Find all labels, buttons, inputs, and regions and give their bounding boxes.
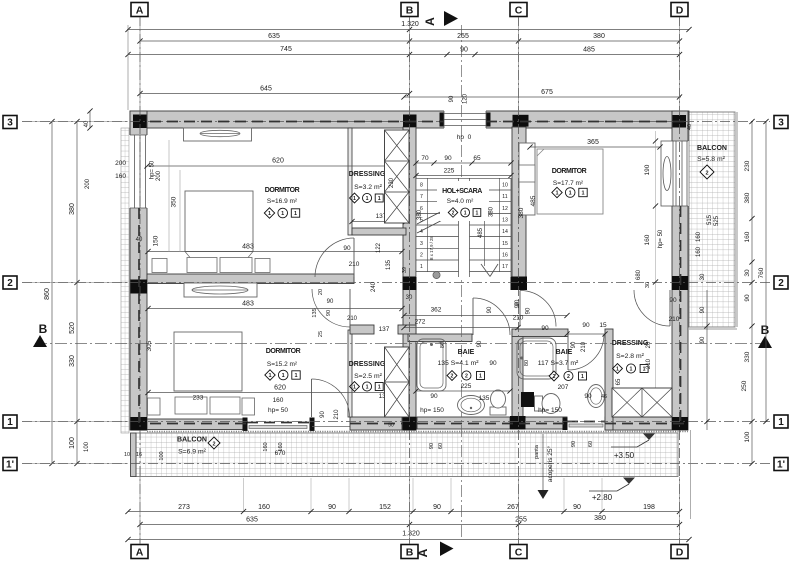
svg-text:30: 30 [406,295,413,301]
left exterior hatch strip [121,128,129,433]
svg-text:135: 135 [479,395,490,402]
svg-text:330: 330 [69,355,76,367]
dim 483 dormitor1 [148,251,402,253]
svg-text:90: 90 [430,393,438,400]
door baie2 [568,334,604,370]
svg-text:137: 137 [379,326,390,333]
axis 3 horizontal [22,121,444,123]
svg-text:1.320: 1.320 [401,21,419,28]
interior wall dorm1-dorm2 [147,274,354,284]
svg-text:250: 250 [741,380,748,391]
svg-text:380: 380 [417,209,423,220]
svg-text:1: 1 [581,374,584,380]
svg-text:365: 365 [587,139,599,146]
dim 365 dormitor3 [530,146,660,148]
svg-text:1: 1 [268,373,271,379]
dressing2 closet [385,347,410,417]
grid marker 2 right [774,276,788,289]
toilet baie2 [535,396,543,411]
svg-text:B: B [761,323,770,337]
svg-text:hp 0: hp 0 [457,134,472,141]
staircase [416,178,511,277]
svg-text:362: 362 [431,307,442,314]
svg-text:267: 267 [507,504,519,511]
svg-text:panta: panta [534,444,540,459]
grid marker C top [510,3,527,17]
dim 620 dormitor1 [147,165,402,167]
svg-text:305: 305 [146,340,153,351]
baie1 top wall [408,334,472,342]
svg-text:135: 135 [386,259,392,270]
dressing1 bottom wall [352,228,406,235]
svg-text:273: 273 [178,504,190,511]
bottom wall dorm2 segment [147,419,247,430]
svg-text:1: 1 [630,367,633,373]
bottom wall window baie2 [569,424,603,427]
dim lines dorm1 window [168,140,170,252]
svg-text:2: 2 [452,211,455,217]
svg-text:620: 620 [272,158,284,165]
grid marker 1p left [3,458,17,471]
svg-text:60: 60 [588,441,594,447]
svg-text:483: 483 [242,301,254,308]
svg-text:1: 1 [294,373,297,379]
tag balcon2 diamond [700,165,714,179]
svg-text:380: 380 [594,515,606,522]
tag baie2 [549,371,559,381]
svg-text:1.320: 1.320 [402,531,420,538]
svg-text:100: 100 [159,451,165,460]
svg-text:90: 90 [584,393,592,400]
right exterior wall [672,111,688,430]
axis 2 horizontal [22,282,770,284]
C axis wall upper [512,127,526,278]
svg-text:2: 2 [567,374,570,380]
dressing3 closet [612,388,672,417]
room label hol scara [437,181,489,205]
svg-text:198: 198 [643,504,655,511]
dressing3 left wall [605,329,613,430]
svg-text:40: 40 [136,237,143,243]
svg-text:760: 760 [758,267,765,278]
svg-text:90: 90 [582,322,590,329]
svg-text:210: 210 [334,409,340,420]
svg-text:A: A [416,548,430,557]
svg-text:90: 90 [489,360,497,367]
svg-text:1': 1' [777,460,785,471]
extension line B [409,17,411,113]
sink baie1 [458,396,485,415]
svg-text:S=6.9 m²: S=6.9 m² [178,449,207,456]
grid marker B top [401,3,418,17]
svg-text:150: 150 [153,235,160,246]
svg-text:1: 1 [569,191,572,197]
svg-text:152: 152 [379,504,391,511]
svg-text:135: 135 [312,308,318,317]
dim 70 90 65 stair [416,162,511,164]
grid marker A top [131,3,148,17]
svg-text:190: 190 [644,164,651,175]
svg-text:D: D [676,4,684,16]
svg-text:620: 620 [274,385,286,392]
svg-text:90: 90 [515,301,521,308]
svg-text:46: 46 [601,394,607,400]
dressing2 left wall [348,330,352,417]
svg-text:HOL+SCARA: HOL+SCARA [442,188,482,195]
svg-text:380: 380 [744,192,751,203]
dim 40 wall left [89,111,91,128]
axis 1 horizontal [22,421,770,423]
dressing1 left wall [348,128,352,235]
svg-text:15: 15 [502,241,508,247]
svg-text:S=4.0 m²: S=4.0 m² [447,198,474,205]
svg-text:330: 330 [744,351,751,362]
svg-text:100: 100 [744,431,751,442]
svg-text:10: 10 [124,452,130,458]
svg-text:DRESSING: DRESSING [349,361,386,368]
svg-text:80: 80 [440,342,446,348]
top exterior wall [130,111,689,128]
svg-text:S=2.8 m²: S=2.8 m² [616,353,645,360]
svg-text:160: 160 [696,246,702,257]
svg-text:90: 90 [669,297,677,304]
tag dressing2 [350,382,360,392]
svg-text:17: 17 [502,264,508,270]
svg-text:525: 525 [714,215,720,226]
svg-text:70: 70 [421,155,429,162]
svg-text:25: 25 [318,331,324,337]
svg-text:200: 200 [85,178,91,189]
svg-text:1: 1 [294,211,297,217]
door dormitor3 [634,290,670,326]
svg-text:745: 745 [280,46,292,53]
svg-text:90: 90 [328,504,336,511]
svg-text:90: 90 [449,95,455,102]
svg-text:90: 90 [343,245,351,252]
svg-text:A: A [136,546,144,558]
svg-text:645: 645 [260,86,272,93]
svg-text:100: 100 [69,437,76,449]
svg-text:483: 483 [242,244,254,251]
extension line A [139,17,141,110]
svg-text:120: 120 [463,93,469,104]
bed dormitor2 [174,332,242,391]
svg-text:30: 30 [645,282,651,288]
balcony right outer edge [736,112,738,327]
column C1 [510,416,526,430]
svg-text:2: 2 [553,374,556,380]
column B3 [403,115,417,128]
svg-text:B: B [406,546,414,558]
svg-text:225: 225 [461,383,472,390]
dim 620 dormitor2 [148,392,402,394]
section line B-B horizontal [35,343,762,345]
svg-text:D: D [676,546,684,558]
terrace left parapet [131,433,137,477]
dim 675 right [404,96,681,98]
column B1 [403,417,417,431]
svg-text:1: 1 [7,417,13,428]
svg-text:210: 210 [347,316,358,322]
grid marker B bottom [401,545,418,559]
svg-text:225: 225 [444,168,455,175]
svg-text:160: 160 [644,234,651,245]
svg-text:1: 1 [366,196,369,202]
svg-text:117 S=3.7 m²: 117 S=3.7 m² [538,360,579,367]
svg-text:100: 100 [84,441,90,452]
dim total 1320 top [127,29,689,31]
extension line terrace right [690,430,692,519]
svg-text:1: 1 [268,211,271,217]
svg-text:11: 11 [502,194,507,200]
svg-text:380: 380 [593,33,605,40]
svg-text:16: 16 [136,452,142,458]
svg-text:90: 90 [571,341,577,348]
svg-text:DORMITOR: DORMITOR [552,168,587,175]
svg-text:1: 1 [281,211,284,217]
C axis wall lower [512,330,523,418]
svg-text:39: 39 [402,267,408,273]
svg-text:1: 1 [366,385,369,391]
tag baie1 [447,371,457,381]
tag dormitor1 [264,208,274,218]
svg-text:12: 12 [502,206,508,212]
svg-text:14: 14 [502,229,508,235]
svg-text:255: 255 [457,33,469,40]
grid marker D bottom [671,545,688,559]
dim 760 right line [765,122,767,422]
axis C vertical [518,16,520,544]
dim 483 dormitor2 [148,308,402,310]
svg-text:1: 1 [581,191,584,197]
svg-text:90: 90 [573,504,581,511]
svg-text:1: 1 [378,196,381,202]
svg-text:hp= 50: hp= 50 [268,407,288,414]
column D3 [673,115,687,128]
svg-text:1: 1 [353,385,356,391]
svg-text:200: 200 [156,170,162,181]
column A2 [131,280,148,294]
dim 860 left line [51,122,53,464]
grid marker C bottom [510,545,527,559]
svg-text:B: B [406,4,414,16]
svg-text:380: 380 [69,203,76,215]
svg-text:hp= 50: hp= 50 [658,229,664,248]
svg-text:2: 2 [451,374,454,380]
svg-text:90: 90 [320,411,326,418]
svg-text:90: 90 [326,310,332,316]
extension line C [518,17,520,113]
svg-text:hp= 50: hp= 50 [150,160,156,179]
svg-text:S=3.2 m²: S=3.2 m² [354,184,383,191]
svg-text:2: 2 [465,374,468,380]
svg-text:C: C [515,546,523,558]
toilet baie1 [490,407,506,415]
svg-text:160: 160 [273,397,284,404]
tag dressing3 [613,364,623,374]
extension line D [679,17,681,113]
svg-text:1: 1 [479,374,482,380]
svg-text:20: 20 [318,289,324,295]
svg-text:A: A [136,4,144,16]
svg-text:485: 485 [478,227,484,238]
svg-text:20: 20 [646,341,652,348]
svg-text:BAIE: BAIE [458,349,475,356]
dressing1 closet [385,130,410,223]
bottom wall baie1 segment [417,417,510,429]
svg-text:380: 380 [518,207,525,218]
svg-text:1: 1 [616,367,619,373]
baie2 top wall [512,329,568,337]
dim chain right line [751,122,753,464]
svg-text:135 S=4.1 m²: 135 S=4.1 m² [438,360,480,367]
dim bottom total 1320 [128,539,689,541]
svg-text:1: 1 [420,264,423,270]
svg-text:A: A [423,17,437,26]
wardrobe dormitor2 [184,283,257,297]
svg-text:207: 207 [558,384,569,391]
svg-text:90: 90 [541,325,549,332]
right wall window [671,141,688,206]
svg-text:1': 1' [6,460,14,471]
wardrobe dormitor3 [519,143,535,215]
svg-text:230: 230 [744,160,751,171]
extension line C bottom [518,477,520,544]
bathtub baie1 [417,339,446,391]
dim line 635-255-380 [140,40,680,42]
svg-text:635: 635 [246,517,258,524]
dim chain bottom [128,511,680,513]
svg-text:90: 90 [700,306,706,313]
svg-text:DORMITOR: DORMITOR [265,187,300,194]
svg-text:65: 65 [473,155,481,162]
svg-text:60: 60 [438,443,444,449]
svg-text:515: 515 [707,214,713,225]
svg-text:15: 15 [599,322,607,329]
svg-text:DORMITOR: DORMITOR [266,348,301,355]
column D1 [672,417,688,430]
chain extension lines bottom [243,478,245,511]
bathtub baie2 [517,338,556,379]
svg-text:675: 675 [541,89,553,96]
svg-text:200: 200 [115,160,126,167]
bottom wall plaster strip [147,431,688,433]
column C2 [511,277,528,291]
svg-text:90: 90 [327,299,334,305]
svg-text:30: 30 [700,273,706,280]
axis 1prime horizontal [22,463,770,465]
svg-text:90: 90 [487,306,493,313]
svg-text:680: 680 [636,269,642,280]
svg-text:350: 350 [171,196,178,207]
stair window gap top wall [444,110,486,128]
svg-text:65: 65 [616,378,622,385]
left wall dash line [138,208,140,427]
balcony hatch top-right [689,112,735,327]
svg-text:50: 50 [388,423,394,429]
svg-text:BAIE: BAIE [556,349,573,356]
extension line B bottom [409,477,411,544]
rug dormitor3 [537,149,603,214]
svg-text:8 x 17,9 / 28: 8 x 17,9 / 28 [429,236,434,260]
svg-text:160: 160 [258,504,270,511]
svg-text:272: 272 [415,319,426,326]
svg-text:2: 2 [705,171,708,177]
extension line A bottom [139,470,141,544]
door baie1 [473,298,510,335]
svg-text:90: 90 [700,336,706,343]
svg-text:2: 2 [778,278,784,289]
svg-text:90: 90 [433,504,441,511]
svg-text:+3.50: +3.50 [614,451,635,460]
svg-text:8: 8 [420,183,423,189]
svg-text:7: 7 [420,194,423,200]
svg-text:1: 1 [555,191,558,197]
svg-text:233: 233 [193,395,204,402]
dim line 745-90-485 [128,54,680,56]
svg-text:90: 90 [460,47,468,54]
dim 645 left [140,93,410,95]
svg-text:520: 520 [69,322,76,334]
horizontal ext lines left [22,121,128,123]
dim bottom 635-255-380 [140,524,680,526]
left wall window [129,135,147,208]
svg-text:acoperis 25°: acoperis 25° [546,446,554,483]
svg-text:1: 1 [464,211,467,217]
svg-text:16: 16 [502,252,508,258]
svg-text:BALCON: BALCON [697,145,727,152]
dim line dorm3 window [655,131,657,417]
svg-text:S=2.5 m²: S=2.5 m² [354,373,383,380]
right window inner frame [661,141,673,206]
svg-text:40: 40 [84,120,90,127]
column B2 [403,277,417,291]
duct shaft black [521,392,534,407]
svg-text:160: 160 [278,442,284,451]
grid marker 2 left [3,276,17,289]
svg-text:2: 2 [420,252,423,258]
svg-text:210: 210 [646,358,652,369]
grid marker 1p right [774,458,788,471]
svg-text:S=17.7 m²: S=17.7 m² [553,180,584,187]
tag dormitor3 [552,187,562,197]
left exterior wall [130,111,147,430]
bottom wall baie2 segment [525,417,567,429]
grid marker 1 left [3,415,17,428]
svg-text:C: C [515,4,523,16]
svg-text:80: 80 [524,360,530,366]
door hall corridor [520,291,556,327]
svg-text:hp= 150: hp= 150 [420,407,444,414]
grid marker 3 left [3,116,17,129]
svg-text:90: 90 [571,441,577,447]
dim 362 272 axis2 [404,315,567,317]
svg-text:B: B [39,322,48,336]
balcony dim line right [706,290,708,430]
top wall dash line [150,121,444,123]
svg-text:1: 1 [778,417,784,428]
axis D vertical [679,16,681,544]
B axis wall [403,127,416,417]
bottom wall dressing3 segment [605,417,672,430]
tag dressing1 [350,193,360,203]
svg-text:3: 3 [420,241,423,247]
level marker +3.50 [643,434,655,441]
svg-text:10: 10 [502,183,508,189]
door dormitor2 hall [312,289,350,327]
svg-text:122: 122 [376,242,382,253]
svg-text:160: 160 [744,231,751,242]
